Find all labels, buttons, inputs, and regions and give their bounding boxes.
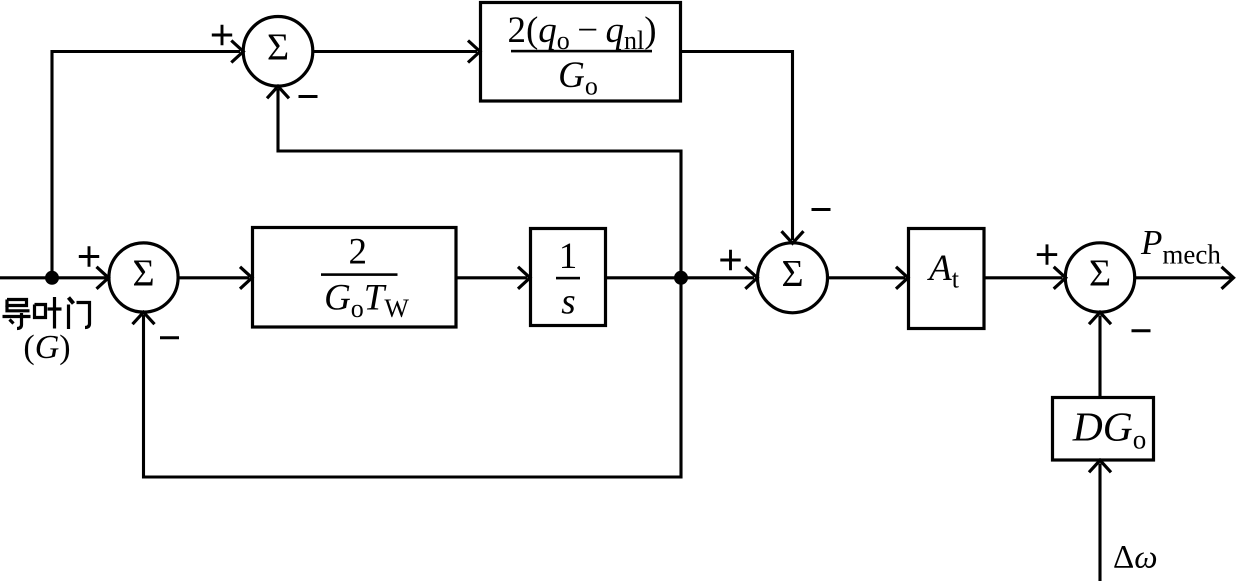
svg-text:Pmech: Pmech: [1140, 223, 1221, 270]
arrow into summer S4: [1054, 267, 1066, 289]
wire upper feedback rail: [278, 149, 681, 152]
summer S2 circle: [109, 243, 178, 312]
block B2 fraction bar: [321, 273, 398, 276]
wire output: [1135, 276, 1231, 279]
svg-text:DGo: DGo: [1072, 404, 1146, 455]
arrow into summer S2 bottom: [133, 312, 155, 324]
arrow into DGo bottom: [1089, 460, 1111, 472]
label - at S4: [1132, 329, 1151, 332]
wire top block out: [681, 50, 793, 53]
arrow into summer S1: [231, 41, 243, 63]
svg-text:(G): (G): [23, 329, 70, 366]
label men (gate): [69, 298, 90, 330]
label ye (vane): [35, 297, 62, 329]
label + at S1: [212, 25, 232, 45]
wire B2 to B3: [456, 276, 527, 279]
block B1 2(qo-qnl)/Go box: [481, 3, 681, 102]
svg-text:At: At: [926, 248, 960, 294]
svg-text:Σ: Σ: [781, 253, 803, 295]
wire top rail to S1: [51, 50, 241, 53]
arrow into summer S3 top: [782, 231, 804, 243]
arrow into summer S1 bottom: [267, 86, 289, 98]
arrow into top block: [468, 41, 480, 63]
wire S1 to top block: [313, 50, 477, 53]
wire DGo to S4: [1098, 316, 1101, 398]
label + at S4: [1037, 244, 1057, 264]
arrow into summer S2: [97, 267, 109, 289]
svg-text:Σ: Σ: [1089, 253, 1111, 295]
op-amp, summer S1 circle: [243, 17, 313, 87]
block B5 DGo box: [1053, 398, 1154, 461]
svg-text:Δω: Δω: [1113, 540, 1158, 576]
svg-text:GoTW: GoTW: [324, 278, 409, 324]
arrow into summer S3: [745, 267, 757, 289]
block B2 2/(GoTW) box: [253, 228, 457, 328]
label dao (guide): [3, 300, 31, 329]
arrow into summer S4 bottom: [1089, 312, 1111, 324]
wire node B up: [679, 150, 682, 278]
svg-text:2(qo − qnl): 2(qo − qnl): [507, 10, 656, 55]
label - at S3: [812, 208, 831, 211]
wire S3 to At: [828, 276, 905, 279]
node A (input pickoff): [45, 271, 59, 285]
label + at S2: [79, 246, 99, 266]
label - at S1: [299, 95, 318, 98]
summer S4 circle: [1065, 243, 1134, 312]
block B4 At box: [909, 229, 985, 329]
wire B3 to S3: [606, 276, 754, 279]
wire delta-omega input: [1098, 464, 1101, 581]
arrow output: [1222, 267, 1234, 289]
wire lower feedback rail: [144, 475, 683, 478]
arrow into block B2: [240, 267, 252, 289]
svg-text:Go: Go: [558, 55, 598, 101]
arrow into block B3: [518, 267, 530, 289]
wire node A riser: [50, 50, 53, 278]
block B3 fraction bar: [556, 277, 580, 280]
block B1 fraction bar: [511, 50, 652, 53]
wire input: [0, 276, 106, 279]
svg-text:1: 1: [559, 236, 578, 277]
svg-text:s: s: [561, 282, 575, 323]
wire At to S4: [984, 276, 1063, 279]
label - at S2: [160, 336, 179, 339]
summer S3 circle: [758, 243, 828, 313]
wire down to S3: [791, 50, 794, 240]
arrow into block At: [896, 267, 908, 289]
svg-text:2: 2: [348, 232, 367, 273]
node B after integrator: [674, 271, 688, 285]
wire node B down: [679, 278, 682, 479]
wire S2 to block B2: [178, 276, 249, 279]
block B3 1/s box: [531, 229, 606, 326]
wire up into S1 bottom: [276, 89, 279, 153]
svg-text:Σ: Σ: [132, 253, 154, 295]
svg-text:Σ: Σ: [267, 26, 289, 68]
wire up into S2 bottom: [142, 315, 145, 479]
label + at S3: [720, 250, 740, 270]
